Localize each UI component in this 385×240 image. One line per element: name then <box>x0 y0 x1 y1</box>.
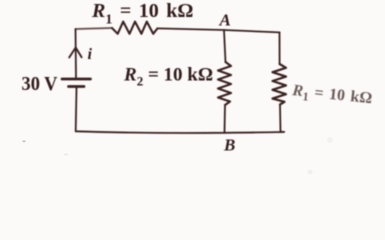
paper background <box>0 0 385 180</box>
wire: top middle to node A <box>158 28 225 30</box>
battery V1 long plate <box>62 78 91 81</box>
resistor R3 (right, vertical zigzag; scanned label reads R1) <box>273 64 287 105</box>
battery V1 short plate <box>69 85 85 88</box>
resistor R1 (top, horizontal zigzag) <box>112 22 158 34</box>
faint scan smudges (decorative) <box>22 137 333 175</box>
svg-text:A: A <box>219 11 231 30</box>
svg-text:R2 = 10 kΩ: R2 = 10 kΩ <box>123 65 213 89</box>
svg-text:30 V: 30 V <box>22 73 58 95</box>
wire: node A to top right corner <box>224 30 280 32</box>
resistor R2 (middle, vertical zigzag) <box>218 62 231 105</box>
wire: top right corner down to resistor R3 <box>279 32 281 64</box>
wire: node A down to resistor R2 <box>224 30 226 62</box>
svg-text:B: B <box>223 136 235 155</box>
wire: resistor R3 to bottom right corner <box>279 105 282 132</box>
wire: top left segment <box>76 28 113 29</box>
wire: battery to bottom left corner <box>75 88 78 132</box>
svg-text:i: i <box>88 46 93 63</box>
current arrow i (arrowhead) <box>69 48 81 58</box>
wire: left vertical from top corner down to battery <box>75 29 78 78</box>
wire: bottom rail <box>76 131 284 133</box>
wire: resistor R2 to bottom rail (node B) <box>224 105 227 133</box>
